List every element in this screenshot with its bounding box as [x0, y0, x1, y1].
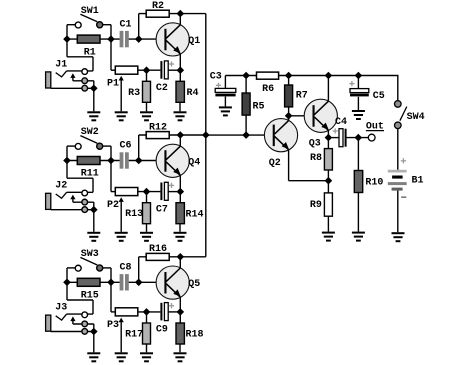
svg-text:SW2: SW2 — [81, 127, 99, 138]
svg-text:R11: R11 — [81, 169, 99, 180]
svg-text:R12: R12 — [149, 122, 167, 133]
svg-text:J3: J3 — [55, 303, 67, 314]
svg-text:C6: C6 — [119, 141, 131, 152]
svg-text:R15: R15 — [81, 291, 99, 302]
svg-text:SW1: SW1 — [81, 6, 99, 17]
svg-text:R14: R14 — [185, 209, 203, 220]
svg-text:R10: R10 — [365, 178, 383, 189]
svg-text:R8: R8 — [310, 153, 322, 164]
svg-text:C5: C5 — [373, 91, 385, 102]
svg-text:C9: C9 — [156, 325, 168, 336]
svg-text:J1: J1 — [55, 59, 67, 70]
svg-text:C7: C7 — [156, 204, 168, 215]
svg-text:R17: R17 — [125, 330, 143, 341]
svg-text:R1: R1 — [84, 47, 96, 58]
svg-text:SW4: SW4 — [407, 112, 425, 123]
svg-text:Q3: Q3 — [309, 138, 321, 149]
svg-text:Q4: Q4 — [188, 157, 200, 168]
svg-text:P3: P3 — [107, 320, 119, 331]
svg-text:B1: B1 — [411, 175, 423, 186]
svg-text:P1: P1 — [107, 78, 119, 89]
svg-text:R9: R9 — [310, 200, 322, 211]
svg-text:Q2: Q2 — [269, 158, 281, 169]
svg-text:R18: R18 — [185, 330, 203, 341]
svg-text:R6: R6 — [262, 84, 274, 95]
svg-text:SW3: SW3 — [81, 249, 99, 260]
svg-text:C2: C2 — [156, 83, 168, 94]
svg-text:R2: R2 — [152, 1, 164, 12]
svg-text:P2: P2 — [107, 200, 119, 211]
svg-text:R5: R5 — [252, 101, 264, 112]
svg-text:R16: R16 — [149, 244, 167, 255]
svg-text:R13: R13 — [125, 209, 143, 220]
svg-text:C4: C4 — [335, 117, 347, 128]
svg-text:R3: R3 — [128, 88, 140, 99]
svg-text:C1: C1 — [119, 19, 131, 30]
svg-text:J2: J2 — [55, 181, 67, 192]
svg-text:Q5: Q5 — [188, 279, 200, 290]
svg-text:Q1: Q1 — [188, 36, 200, 47]
svg-text:C8: C8 — [119, 263, 131, 274]
svg-text:R4: R4 — [186, 88, 198, 99]
svg-text:R7: R7 — [296, 90, 308, 101]
svg-text:C3: C3 — [210, 72, 222, 83]
